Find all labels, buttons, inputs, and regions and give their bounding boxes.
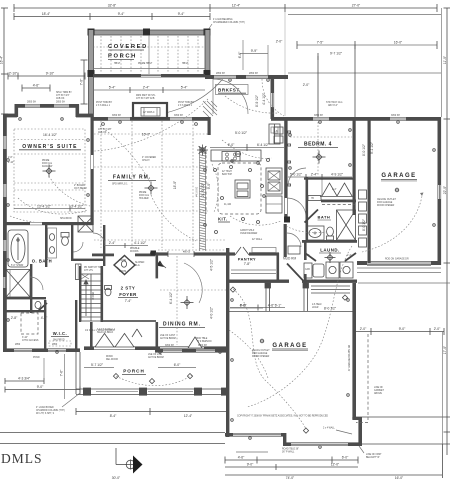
dim row above owner suite: [8, 73, 85, 80]
svg-text:16'-4": 16'-4": [0, 55, 4, 64]
svg-text:3'-10": 3'-10": [22, 337, 28, 339]
wall outlet symbols: [7, 79, 436, 449]
svg-text:11'-0": 11'-0": [443, 55, 447, 64]
owner bath tub: [8, 230, 28, 267]
svg-text:ABOVE: ABOVE: [374, 392, 382, 395]
svg-text:AT GARAGE DR ABV GR: AT GARAGE DR ABV GR: [348, 344, 351, 371]
svg-text:ACTIVE BDRM: ACTIVE BDRM: [160, 337, 176, 340]
svg-text:4'-9 1/2": 4'-9 1/2": [331, 173, 344, 177]
svg-text:BAR TOP: BAR TOP: [222, 173, 232, 176]
garage2 S-curve wiring: [233, 289, 306, 429]
svg-text:2'-10": 2'-10": [8, 162, 14, 164]
garage2 right wall: [352, 283, 356, 419]
right cabinet dashed line: [356, 334, 368, 423]
black post kitchen corner: [284, 217, 290, 223]
svg-text:17'-0": 17'-0": [443, 345, 447, 354]
svg-text:6'-0": 6'-0": [240, 304, 247, 308]
svg-text:FAN/LOW: FAN/LOW: [42, 165, 53, 168]
kitchen west counter dashed: [205, 150, 207, 214]
half wall at stairs bottom: [103, 320, 156, 322]
wic walls: [44, 300, 46, 349]
svg-text:74'-0": 74'-0": [286, 476, 295, 480]
svg-text:MUD RM: MUD RM: [283, 257, 296, 261]
svg-text:LIN: LIN: [275, 131, 279, 133]
left bottom dim group: [5, 354, 80, 399]
porch electrical arc: [116, 375, 192, 386]
svg-text:DND TBLE: DND TBLE: [196, 338, 208, 340]
powder fixtures: [117, 261, 127, 271]
family rm ceiling dash grid: [94, 121, 225, 248]
svg-text:2'-4": 2'-4": [347, 255, 352, 257]
svg-text:FOR GARAGE: FOR GARAGE: [252, 352, 268, 355]
covered porch left wall: [88, 30, 95, 117]
svg-text:FOR GARAGE: FOR GARAGE: [377, 201, 393, 204]
svg-text:KIT.: KIT.: [218, 217, 227, 222]
svg-text:LNE OF LINE: LNE OF LINE: [148, 354, 163, 356]
dining dim rows: [230, 305, 285, 311]
laundry angled corners: [305, 253, 356, 261]
breakfast right exterior wall: [271, 75, 275, 119]
pantry top wall + angled door: [228, 247, 279, 256]
svg-text:AVB OK: AVB OK: [98, 131, 107, 134]
top right exterior wall with windows: [271, 117, 441, 121]
svg-text:16 RSR: 16 RSR: [93, 292, 95, 300]
svg-text:4'-4 1/2": 4'-4 1/2": [262, 92, 266, 105]
svg-text:DOUBLE: DOUBLE: [130, 248, 140, 250]
svg-text:2'-4": 2'-4": [109, 241, 116, 245]
owner's suite ceiling fan: [43, 165, 56, 178]
pantry right wall: [277, 253, 280, 282]
hall walls above foyer: [103, 225, 105, 266]
bottom dim rows center: [225, 457, 358, 464]
family rm electrical arcs: [94, 99, 208, 151]
covered porch top wall (screened, double line): [88, 29, 211, 36]
linen shelf box: [308, 196, 321, 201]
kitchen recessed lights: [214, 159, 270, 234]
bedrm4 right wall: [353, 119, 356, 215]
breakfast bench cabinet: [269, 124, 280, 144]
porch light diamonds: [113, 374, 192, 384]
svg-text:FOR CLG: FOR CLG: [42, 163, 52, 165]
laundry left wall: [304, 240, 307, 260]
svg-text:42" WALL: 42" WALL: [252, 238, 263, 241]
svg-text:2850 SH: 2850 SH: [216, 73, 225, 75]
corner cab hatch: [203, 101, 217, 117]
svg-text:GARAGE: GARAGE: [272, 343, 307, 349]
right dim extension vertical: [441, 8, 443, 117]
powder room diamond: [114, 256, 135, 275]
svg-text:6'-6": 6'-6": [238, 51, 242, 58]
vanity counter: [48, 228, 57, 258]
svg-text:4' LOAD BEARING: 4' LOAD BEARING: [213, 18, 233, 21]
svg-text:9'-0": 9'-0": [37, 385, 44, 389]
washer dryer: [304, 262, 353, 278]
svg-text:2'-4": 2'-4": [332, 189, 337, 191]
svg-text:DOOR OPENER: DOOR OPENER: [377, 205, 395, 207]
svg-text:BATH: BATH: [318, 215, 331, 220]
kitchen cooktop counter: [211, 150, 261, 161]
svg-text:32'-8": 32'-8": [108, 4, 117, 8]
garage2 header line: [229, 311, 353, 313]
svg-text:16'-4 1/2": 16'-4 1/2": [43, 133, 58, 137]
rear stoop steps: [311, 286, 350, 293]
svg-text:ATTIC ACCESS: ATTIC ACCESS: [22, 339, 39, 342]
svg-text:COVERED: COVERED: [108, 44, 148, 50]
pantry bottom wall: [227, 280, 289, 283]
svg-text:DEL DOOR: DEL DOOR: [106, 359, 118, 361]
bedrm4/garage divider wall: [368, 119, 371, 263]
garage2 outlet + note: [260, 339, 264, 343]
svg-text:2850: 2850: [52, 344, 58, 346]
foyer/dining divider walls: [156, 252, 159, 278]
section cut arrow: [156, 261, 166, 269]
bath vanity: [307, 226, 325, 240]
svg-text:2 x 4 WALL: 2 x 4 WALL: [323, 427, 336, 430]
svg-text:2'-0": 2'-0": [360, 327, 367, 331]
svg-text:W.I.C.: W.I.C.: [53, 331, 67, 336]
svg-text:18'-0": 18'-0": [173, 180, 177, 189]
svg-text:POST TRIM BY: POST TRIM BY: [178, 102, 195, 104]
family/owner divider wall: [91, 117, 94, 225]
bedrm4 closet bifold: [320, 183, 353, 197]
svg-text:2'-0": 2'-0": [434, 327, 441, 331]
site line upper right: [356, 416, 450, 418]
svg-text:7'-8": 7'-8": [244, 262, 251, 266]
svg-text:CELNG OUTLET: CELNG OUTLET: [252, 350, 270, 352]
right upper vertical guides: [318, 45, 355, 117]
svg-text:HOLDER: HOLDER: [139, 198, 149, 200]
svg-text:9'-0": 9'-0": [399, 327, 406, 331]
porch center post lines: [93, 35, 205, 75]
left exterior wall with windows: [3, 114, 7, 350]
svg-text:2 X 6 WALL 1: 2 X 6 WALL 1: [178, 104, 193, 107]
wc toilet lower: [35, 301, 41, 308]
right upper dim ticks: [297, 41, 437, 60]
site line lower right: [362, 443, 450, 445]
svg-text:CABINET: CABINET: [374, 389, 385, 392]
svg-text:2" BOARD: 2" BOARD: [74, 184, 85, 187]
family rm right wall stub: [208, 117, 211, 135]
suite electrical arcs: [18, 198, 88, 214]
svg-text:LDGR: LDGR: [312, 307, 319, 309]
window size labels: [15, 73, 400, 347]
svg-text:7'-0": 7'-0": [80, 78, 84, 85]
svg-text:CLG: CLG: [135, 265, 140, 267]
svg-text:ATT PLT 3/4": ATT PLT 3/4": [56, 94, 70, 97]
svg-text:ACTIVE BDRM: ACTIVE BDRM: [148, 356, 164, 359]
svg-text:CAB: CAB: [305, 268, 310, 271]
bedrm4 door arc: [288, 168, 306, 186]
right side dim row below garage1: [355, 328, 444, 335]
left vertical dim line: [1, 8, 8, 114]
svg-text:FOYER: FOYER: [119, 292, 137, 297]
svg-text:2'-0": 2'-0": [276, 40, 283, 44]
svg-text:8'-0 1/2": 8'-0 1/2": [362, 143, 366, 156]
hall/bath divider wall: [306, 177, 309, 241]
svg-text:DOORS: DOORS: [130, 251, 139, 253]
svg-text:9'-4": 9'-4": [178, 12, 185, 16]
svg-text:SHLF TRIM BY: SHLF TRIM BY: [56, 92, 72, 94]
hall closet shelves: [76, 264, 82, 280]
svg-text:16'-0": 16'-0": [395, 476, 404, 480]
foyer closet triangles at entry: [132, 329, 142, 337]
svg-text:7B: 7B: [311, 198, 314, 200]
svg-text:2850 SH: 2850 SH: [249, 73, 258, 75]
svg-text:5'-0" SHWR: 5'-0" SHWR: [11, 265, 24, 267]
secondary dim row: [22, 85, 50, 92]
svg-text:AVB OK: AVB OK: [56, 97, 65, 100]
breakfast top wall with windows: [205, 75, 288, 79]
svg-text:2850 SH: 2850 SH: [27, 102, 36, 104]
svg-text:4" LOAD BOXED: 4" LOAD BOXED: [36, 406, 54, 409]
top dim row 2: [14, 13, 210, 20]
svg-text:PORCH: PORCH: [108, 54, 137, 60]
svg-text:7'-4": 7'-4": [125, 299, 132, 303]
svg-text:O. BATH: O. BATH: [32, 259, 52, 264]
svg-text:DMLS: DMLS: [1, 451, 43, 466]
svg-text:8'-0 1/2": 8'-0 1/2": [362, 218, 366, 231]
small sconce marks family top: [102, 123, 198, 126]
wiring diamonds garage2: [230, 287, 347, 433]
svg-text:ROD ON GARAGE DR: ROD ON GARAGE DR: [385, 258, 409, 261]
small switches kitchen: [231, 160, 266, 198]
black post at hall: [151, 251, 157, 256]
svg-text:SHLF/ROD: SHLF/ROD: [53, 340, 65, 342]
svg-text:6'-4 1/2": 6'-4 1/2": [257, 143, 270, 147]
svg-text:FOR CLG: FOR CLG: [139, 195, 149, 197]
svg-text:POND: POND: [33, 357, 40, 359]
garage1 bottom wall and garage door: [357, 261, 441, 266]
wc angled door: [38, 303, 47, 311]
svg-text:PRIME: PRIME: [139, 192, 147, 194]
smoke alarm breakfast: [235, 151, 240, 156]
svg-text:ROOM: ROOM: [119, 271, 126, 273]
mud bench: [288, 246, 300, 254]
owner's suite bottom wall: [3, 222, 93, 225]
svg-text:PWDR: PWDR: [119, 260, 126, 262]
svg-text:HB/LT: HB/LT: [114, 63, 121, 65]
svg-text:LAUND.: LAUND.: [320, 248, 340, 253]
pantry shelves: [231, 270, 276, 274]
svg-text:9'-0": 9'-0": [247, 463, 254, 467]
front wall left block: [3, 348, 80, 352]
svg-text:3050 SH: 3050 SH: [174, 115, 183, 117]
svg-text:STD TRAY CLG: STD TRAY CLG: [326, 101, 343, 104]
svg-text:4'-0 1/2": 4'-0 1/2": [210, 306, 214, 319]
kitchen south wall left segment: [150, 252, 168, 255]
stoop posts: [265, 283, 309, 311]
svg-text:CHLNY: CHLNY: [142, 160, 150, 162]
svg-text:PORCH: PORCH: [123, 369, 145, 374]
bath shower: [337, 210, 356, 240]
svg-text:#4-1-0-00: #4-1-0-00: [197, 186, 199, 197]
svg-text:COPYRIGHT © 2008 BY FRANK BETZ: COPYRIGHT © 2008 BY FRANK BETZ ASSOCIATE…: [237, 414, 328, 417]
rear wall projection line: [358, 282, 450, 284]
svg-text:4'-6": 4'-6": [238, 456, 245, 460]
svg-text:4'-3 3/4": 4'-3 3/4": [18, 377, 31, 381]
svg-text:16'-0": 16'-0": [394, 41, 403, 45]
vertical dim in closet area: [321, 180, 323, 196]
pantry cabinet row above: [252, 248, 276, 253]
svg-text:PRIME HB/LT: PRIME HB/LT: [138, 63, 153, 65]
closet X near suite: [78, 216, 93, 232]
mud arc: [287, 233, 301, 247]
top dim row 1: [14, 4, 437, 116]
svg-text:7'-5": 7'-5": [317, 41, 324, 45]
svg-text:HB/LT: HB/LT: [182, 63, 189, 65]
cased opening: [168, 251, 194, 257]
bedrm4 dim row: [288, 174, 352, 180]
svg-text:9'-0": 9'-0": [207, 182, 211, 189]
garage2 top dims: [230, 307, 263, 309]
garage1 outlet symbol: [395, 188, 399, 192]
svg-text:DINING RM.: DINING RM.: [163, 322, 201, 328]
laundry bottom wall: [302, 280, 357, 283]
wic shelf dashes: [49, 341, 71, 346]
mud rm diagonal wall: [287, 264, 303, 281]
svg-text:GARAGE: GARAGE: [381, 173, 416, 179]
svg-text:9'-7 1/2": 9'-7 1/2": [330, 52, 343, 56]
porch ceiling joist dashed grid: [93, 36, 205, 73]
bedrm4 closet wall: [304, 178, 354, 180]
svg-text:ROND: ROND: [106, 356, 113, 358]
right sheet dim line: [444, 8, 450, 455]
svg-text:2 X 6 WALL 1: 2 X 6 WALL 1: [96, 104, 111, 107]
kitchen island dashed: [218, 163, 261, 214]
porch left edge: [76, 352, 80, 394]
covered porch right wall: [204, 30, 211, 77]
svg-text:BRKFST.: BRKFST.: [218, 88, 241, 93]
svg-text:2'-4": 2'-4": [143, 86, 150, 90]
bottom garage dims small: [236, 451, 268, 453]
mud rm west wall: [284, 224, 287, 257]
svg-text:PRIME: PRIME: [42, 160, 50, 162]
garage1 apron line: [357, 267, 441, 269]
svg-text:9'-10": 9'-10": [46, 72, 55, 76]
entry door triangles: [95, 334, 202, 349]
svg-text:CHAMFERED COLUMN (TYP): CHAMFERED COLUMN (TYP): [213, 21, 245, 24]
svg-text:12'-0": 12'-0": [331, 463, 340, 467]
right exterior wall garage1: [438, 117, 442, 265]
svg-text:4" COVERED: 4" COVERED: [142, 157, 156, 159]
wall switch marks: [288, 131, 291, 186]
svg-text:DOOR OPENER: DOOR OPENER: [252, 356, 270, 358]
svg-text:PD SWITCH TO: PD SWITCH TO: [84, 267, 101, 269]
svg-text:2850 SH: 2850 SH: [56, 102, 65, 104]
svg-text:5'-4": 5'-4": [181, 86, 188, 90]
porch front edge band with posts: [76, 388, 228, 396]
svg-text:3-0 X 6-8 WALL 1: 3-0 X 6-8 WALL 1: [97, 328, 116, 331]
powder toilet: [105, 286, 112, 296]
svg-text:W/ LHT, S SHT, S: W/ LHT, S SHT, S: [36, 413, 55, 415]
svg-text:ATT PLT 3/8": ATT PLT 3/8": [98, 128, 112, 131]
garage1 electrical arc: [362, 196, 422, 252]
hall top wall left: [92, 254, 114, 257]
porch bottom wall: [93, 74, 205, 77]
svg-text:3'-4 1/2": 3'-4 1/2": [71, 204, 84, 208]
family rm bottom dims: [104, 243, 148, 248]
svg-text:LINE OF: LINE OF: [374, 387, 384, 389]
bath bottom wall: [302, 240, 357, 243]
owner shower: [6, 270, 30, 298]
garage2 bottom step: [283, 433, 286, 446]
svg-text:8'-4": 8'-4": [110, 414, 117, 418]
dining ceiling dashes: [158, 250, 227, 345]
closet bottom wall: [321, 200, 356, 203]
owner's suite bay window wall: [3, 104, 93, 117]
svg-text:8'-0 1/2": 8'-0 1/2": [324, 307, 337, 311]
svg-text:2'-4": 2'-4": [311, 173, 318, 177]
garage2 bottom wall right segment with door: [283, 442, 362, 446]
svg-text:18'-4": 18'-4": [42, 12, 51, 16]
svg-text:POST TRIM BY: POST TRIM BY: [96, 102, 113, 104]
svg-text:9'-1 1/2": 9'-1 1/2": [370, 141, 374, 154]
svg-text:SPD WRFLG 1: SPD WRFLG 1: [112, 184, 128, 186]
svg-text:ON T-BEAM: ON T-BEAM: [74, 187, 87, 190]
dining fan: [181, 296, 194, 309]
svg-text:PANTRY: PANTRY: [238, 258, 256, 262]
hall door arc: [287, 198, 306, 217]
svg-text:3050 SH: 3050 SH: [165, 345, 174, 347]
bath mid walls: [30, 264, 32, 313]
svg-text:ATT LTS: ATT LTS: [84, 269, 93, 272]
svg-text:5'-4": 5'-4": [109, 86, 116, 90]
right upper roof/eave lines: [288, 15, 441, 74]
svg-text:#80-00: #80-00: [183, 252, 191, 254]
stairs: [81, 274, 101, 321]
garage2 left wall lower: [226, 352, 229, 437]
site line lower left: [0, 443, 225, 445]
laundry door gap wall: [304, 274, 307, 283]
foyer west wall: [90, 322, 93, 350]
svg-text:2'-8": 2'-8": [11, 316, 18, 320]
svg-text:41,440: 41,440: [224, 204, 232, 206]
linen dashed box: [21, 313, 38, 334]
suite entry arcs: [93, 233, 105, 245]
front wall foyer/dining: [84, 346, 229, 350]
north arrow: [116, 448, 143, 474]
bath dashed clg line: [322, 204, 355, 206]
svg-text:OWNER'S SUITE: OWNER'S SUITE: [22, 144, 77, 150]
bath toilet top: [61, 233, 69, 246]
family rm ceiling fan: [145, 182, 158, 195]
svg-text:3050 SH: 3050 SH: [314, 115, 323, 117]
vertical dim porch interior left: [242, 40, 244, 70]
svg-text:CEILING OUTLET: CEILING OUTLET: [377, 199, 396, 201]
hall top wall right: [135, 254, 155, 257]
svg-text:LINE OF FRST: LINE OF FRST: [366, 454, 382, 456]
svg-text:36" P WALL: 36" P WALL: [282, 451, 295, 454]
brkfst electrical arcs: [225, 96, 278, 113]
svg-text:30'-0": 30'-0": [112, 476, 121, 480]
svg-text:42" FRPLC: 42" FRPLC: [143, 112, 155, 114]
stair up arrow: [84, 280, 88, 316]
kitchen electrical arcs: [222, 140, 272, 158]
laundry light diamond: [325, 252, 336, 263]
dining door arc: [184, 263, 202, 303]
dining right wall: [226, 248, 229, 352]
svg-text:3050 SH: 3050 SH: [112, 115, 121, 117]
svg-text:5'-0 1/2": 5'-0 1/2": [235, 131, 248, 135]
svg-text:6'-0": 6'-0": [342, 456, 349, 460]
svg-text:ABV 9'-0": ABV 9'-0": [328, 104, 338, 107]
svg-text:9'-9": 9'-9": [251, 49, 258, 53]
bath wall right: [71, 225, 73, 261]
svg-text:42" HIGH: 42" HIGH: [222, 171, 232, 173]
kitchen south wall right segment: [194, 252, 230, 255]
porch bottom dim row: [76, 408, 227, 415]
right property vertical upper: [442, 332, 444, 444]
